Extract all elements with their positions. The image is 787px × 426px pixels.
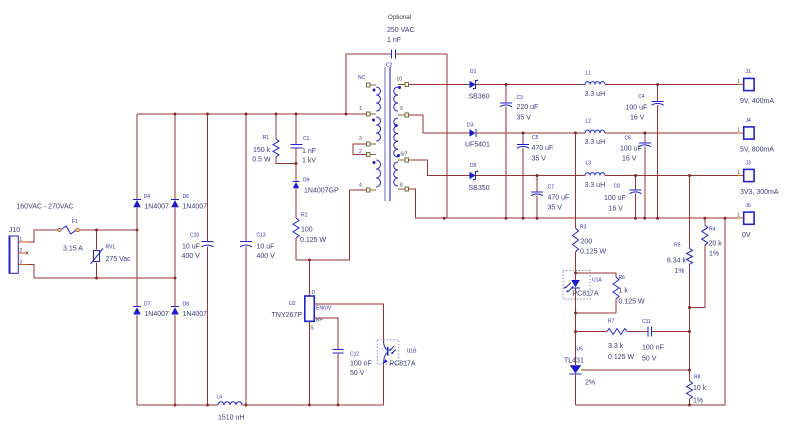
wire: TL431 ref line — [581, 369, 690, 371]
svg-text:R1: R1 — [263, 135, 270, 141]
svg-text:EN/UV: EN/UV — [316, 306, 332, 312]
junction: compensation tap — [574, 330, 577, 333]
junction: 0V rail taps — [443, 217, 727, 220]
diode D3 UF5401 — [465, 123, 490, 149]
svg-text:C11: C11 — [642, 319, 651, 325]
svg-text:6/7: 6/7 — [401, 152, 408, 158]
node: AC input label — [16, 204, 73, 211]
svg-text:20 k: 20 k — [709, 241, 723, 248]
svg-text:0.125 W: 0.125 W — [608, 354, 634, 361]
svg-text:1: 1 — [359, 106, 362, 112]
svg-text:D9: D9 — [303, 178, 310, 184]
svg-text:220 uF: 220 uF — [517, 104, 539, 111]
svg-text:160VAC - 270VAC: 160VAC - 270VAC — [16, 204, 73, 211]
capacitor C3 220uF 35V — [500, 85, 538, 219]
no-connect marker on J10 pin 2 — [25, 252, 28, 255]
junction: L node at left bridge leg — [136, 229, 139, 232]
svg-text:J6: J6 — [746, 203, 752, 209]
svg-text:D5: D5 — [470, 163, 477, 169]
svg-text:R2: R2 — [301, 213, 308, 219]
connector J10 — [9, 227, 27, 273]
wire: optocoupler emitter to primary ground rail — [383, 364, 385, 405]
svg-text:C1: C1 — [303, 136, 310, 142]
svg-text:100: 100 — [301, 227, 313, 234]
diode D8 1N4007 — [171, 301, 207, 318]
transformer secondary winding 9-6/7 — [394, 118, 398, 157]
svg-text:3.3 uH: 3.3 uH — [585, 91, 606, 98]
wire: D9 to R2 — [295, 188, 297, 218]
resistor R3 200 — [573, 133, 607, 273]
svg-text:C2: C2 — [386, 63, 393, 69]
svg-text:100 uF: 100 uF — [620, 146, 642, 153]
svg-text:C13: C13 — [257, 233, 266, 239]
inductor L3 3.3uH — [585, 161, 606, 190]
svg-text:C4: C4 — [638, 94, 645, 100]
junction: 3V3 row taps — [536, 174, 691, 177]
junction: N node at right bridge leg — [174, 277, 177, 280]
svg-text:3V3, 300mA: 3V3, 300mA — [740, 189, 779, 196]
capacitor C12 100nF 50V — [332, 349, 371, 405]
connector J1 9V — [737, 69, 775, 105]
capacitor C1 1nF 1kV — [291, 114, 317, 164]
wire: secondary 0V rail (pin 8 to J6) — [409, 189, 737, 218]
svg-text:0.125 W: 0.125 W — [300, 237, 326, 244]
svg-text:1: 1 — [737, 79, 740, 85]
wire: clamp node to D9 — [295, 164, 297, 182]
fuse F1 — [58, 219, 83, 253]
svg-text:L2: L2 — [586, 119, 592, 125]
wire: C10 leg — [207, 114, 209, 405]
junction: drain node — [308, 259, 311, 262]
capacitor C11 100nF 50V — [627, 319, 690, 363]
svg-text:U1A: U1A — [592, 278, 602, 284]
svg-text:R3: R3 — [580, 225, 587, 231]
resistor R8 10k — [687, 375, 707, 406]
svg-text:L4: L4 — [217, 395, 223, 401]
svg-text:L1: L1 — [586, 71, 592, 77]
svg-text:9V, 400mA: 9V, 400mA — [740, 98, 774, 105]
wire: right bridge leg — [174, 114, 176, 405]
resistor R4 20k — [690, 218, 723, 307]
wire: clamp return / drain node to transformer pin 4 — [296, 190, 366, 260]
svg-text:1 nF: 1 nF — [387, 37, 401, 44]
transformer T1 core — [385, 67, 390, 201]
wire: primary ground rail — [137, 404, 384, 406]
svg-text:1N4007: 1N4007 — [183, 311, 208, 318]
svg-text:1 nF: 1 nF — [302, 148, 316, 155]
svg-text:C8: C8 — [614, 184, 621, 190]
svg-text:1 kV: 1 kV — [302, 157, 316, 164]
svg-text:1: 1 — [737, 213, 740, 219]
svg-text:1N4007: 1N4007 — [144, 204, 169, 211]
svg-text:RV1: RV1 — [106, 245, 116, 251]
svg-text:R6: R6 — [619, 275, 626, 281]
capacitor C8 100uF 16V — [604, 176, 642, 219]
svg-text:10 uF: 10 uF — [182, 244, 200, 251]
wire: 5V row (pin 9 to J4) — [409, 115, 737, 133]
inductor L4 1510uH — [217, 395, 245, 422]
wire: short pins 3-2 — [353, 144, 366, 155]
svg-text:D: D — [312, 290, 316, 296]
svg-text:16 V: 16 V — [630, 115, 645, 122]
wire: 3V3 row (pin 6/7 to J3) — [409, 160, 737, 176]
transformer pin 10 — [397, 77, 409, 87]
junction: bus taps — [174, 113, 348, 116]
transformer primary winding NC-1 — [376, 87, 380, 111]
svg-text:D8: D8 — [183, 301, 190, 307]
svg-text:1: 1 — [737, 170, 740, 176]
transformer primary winding 2-4 — [376, 160, 380, 187]
svg-text:PC817A: PC817A — [390, 361, 416, 368]
svg-text:1N4007: 1N4007 — [144, 311, 169, 318]
wire: C13 leg — [245, 114, 247, 405]
svg-text:Optional: Optional — [388, 14, 411, 21]
svg-text:1N4007GP: 1N4007GP — [304, 188, 339, 195]
svg-text:R4: R4 — [709, 227, 716, 233]
wire: LED cathode down to TL431 cathode — [575, 313, 577, 365]
svg-text:470 uF: 470 uF — [532, 145, 554, 152]
svg-text:3.3 k: 3.3 k — [608, 343, 624, 350]
IC U2 TNY267P — [272, 290, 332, 332]
svg-text:4: 4 — [359, 183, 362, 189]
capacitor C6 100uF 16V — [620, 133, 651, 218]
svg-text:6.34 k: 6.34 k — [667, 258, 687, 265]
connector J6 0V — [737, 203, 754, 239]
svg-text:C5: C5 — [532, 135, 539, 141]
transformer pin 3 — [359, 136, 376, 146]
optocoupler U1B PC817A (transistor side) — [377, 340, 417, 368]
svg-text:D1: D1 — [470, 69, 477, 75]
shunt regulator U5 TL431 — [564, 347, 595, 406]
svg-text:1N4007: 1N4007 — [183, 204, 208, 211]
junction: LED anode — [574, 272, 577, 275]
transformer pin 2 — [359, 149, 376, 156]
svg-text:C7: C7 — [548, 185, 555, 191]
svg-text:35 V: 35 V — [517, 115, 532, 122]
inductor L2 3.3uH — [585, 119, 606, 147]
transformer pin 8 — [398, 183, 409, 191]
svg-text:0.125 W: 0.125 W — [580, 249, 606, 256]
svg-text:3: 3 — [359, 136, 362, 142]
svg-text:400 V: 400 V — [257, 253, 276, 260]
svg-text:D4: D4 — [144, 194, 151, 200]
svg-text:NC: NC — [358, 75, 366, 81]
svg-text:C12: C12 — [350, 352, 359, 358]
svg-text:0.5 W: 0.5 W — [252, 157, 271, 164]
svg-text:R8: R8 — [694, 375, 701, 381]
diode D6 1N4007 — [171, 194, 207, 211]
svg-text:3.3 uH: 3.3 uH — [585, 182, 606, 189]
svg-text:10 uF: 10 uF — [257, 244, 275, 251]
svg-text:C6: C6 — [625, 136, 632, 142]
transformer secondary winding 10-9 — [394, 87, 398, 111]
svg-text:150 k: 150 k — [253, 147, 271, 154]
svg-text:1: 1 — [20, 237, 23, 243]
svg-text:275 Vac: 275 Vac — [106, 256, 132, 263]
wire: left bridge leg — [136, 114, 138, 405]
junction: 5V row taps — [522, 132, 647, 135]
transformer pin 6/7 — [398, 152, 409, 162]
wire: LED cathode node to R6 bottom — [576, 312, 617, 314]
svg-text:100 uF: 100 uF — [626, 105, 648, 112]
resistor R2 100 — [293, 213, 326, 261]
wire: J10 pin1 to fuse — [27, 230, 58, 242]
junction: primary rail taps — [174, 404, 340, 407]
transformer primary winding 1-3 — [376, 117, 380, 141]
capacitor C4 100uF 16V — [626, 85, 664, 219]
svg-text:3.15 A: 3.15 A — [63, 246, 83, 253]
svg-text:10 k: 10 k — [693, 385, 707, 392]
transformer pin 4 — [359, 183, 376, 192]
svg-text:UF5401: UF5401 — [465, 142, 490, 149]
diode D5 SB350 — [469, 163, 490, 192]
svg-text:8: 8 — [400, 183, 403, 189]
svg-text:3: 3 — [20, 260, 23, 266]
svg-text:J3: J3 — [746, 161, 752, 167]
svg-text:1%: 1% — [693, 398, 703, 405]
svg-text:250 VAC: 250 VAC — [387, 27, 415, 34]
svg-text:1: 1 — [737, 128, 740, 134]
capacitor C2 250VAC 1nF (Y-cap, optional) — [346, 14, 447, 218]
svg-text:C3: C3 — [517, 95, 524, 101]
junction: 9V row taps — [505, 83, 660, 86]
svg-text:R7: R7 — [608, 319, 615, 325]
capacitor C13 — [240, 233, 275, 261]
wire: opto LED anode node — [576, 273, 617, 277]
svg-text:PC817A: PC817A — [573, 291, 599, 298]
resistor R6 1k — [613, 275, 645, 313]
svg-text:100 nF: 100 nF — [350, 361, 372, 368]
svg-text:16 V: 16 V — [622, 156, 637, 163]
varistor RV1 — [91, 230, 132, 278]
junction: N line / RV1 bottom — [95, 277, 98, 280]
wire: U2 EN/UV to optocoupler collector — [314, 304, 383, 341]
svg-text:10: 10 — [397, 77, 403, 83]
diode D9 1N4007GP — [293, 178, 339, 195]
svg-text:F1: F1 — [72, 219, 78, 225]
svg-text:R5: R5 — [674, 243, 681, 249]
svg-text:1510 uH: 1510 uH — [218, 415, 244, 422]
svg-text:100 uF: 100 uF — [604, 195, 626, 202]
svg-text:D6: D6 — [183, 194, 190, 200]
transformer polarity dots — [372, 86, 401, 164]
resistor R7 3.3k — [576, 319, 635, 362]
svg-text:2: 2 — [20, 248, 23, 254]
svg-text:J4: J4 — [746, 118, 752, 124]
svg-text:100 nF: 100 nF — [642, 345, 664, 352]
svg-text:C10: C10 — [190, 233, 199, 239]
svg-text:U1B: U1B — [407, 349, 417, 355]
transformer secondary winding 6/7-8 — [394, 162, 398, 186]
svg-text:TNY267P: TNY267P — [272, 312, 303, 319]
svg-text:50 V: 50 V — [350, 370, 365, 377]
junction: LED cathode — [574, 312, 577, 315]
svg-text:1%: 1% — [674, 268, 684, 275]
capacitor C7 470uF 35V — [531, 176, 569, 219]
capacitor C5 470uF 35V — [517, 133, 553, 218]
svg-text:5V, 800mA: 5V, 800mA — [740, 147, 774, 154]
wire: rectified + top bus — [137, 113, 366, 115]
connector J3 3V3 — [737, 161, 779, 197]
wire: J10 pin3 to bridge right leg (N node) — [27, 265, 175, 279]
svg-text:1 k: 1 k — [619, 288, 629, 295]
svg-text:9: 9 — [400, 106, 403, 112]
capacitor C10 — [182, 233, 214, 261]
svg-text:U5: U5 — [577, 347, 584, 353]
svg-text:35 V: 35 V — [548, 205, 563, 212]
svg-text:470 uF: 470 uF — [548, 195, 570, 202]
junction: fuse line / RV1 top — [95, 229, 98, 232]
transformer pin 1 — [359, 106, 376, 116]
svg-text:2%: 2% — [585, 380, 595, 387]
junction: ref node taps — [688, 306, 691, 406]
connector J4 5V — [737, 118, 775, 154]
svg-text:0V: 0V — [742, 232, 751, 239]
svg-text:400 V: 400 V — [182, 253, 201, 260]
svg-text:TL431: TL431 — [564, 358, 584, 365]
wire: fuse to bridge left leg (L node) — [79, 229, 137, 231]
svg-text:L3: L3 — [586, 161, 592, 167]
resistor R1 150k — [252, 114, 296, 164]
wire: secondary feedback ground rail — [576, 218, 726, 405]
svg-text:1%: 1% — [709, 251, 719, 258]
junction: clamp RC node — [295, 162, 298, 165]
diode D1 SB360 — [469, 69, 490, 101]
wire: 9V row (pin 10 to J1) — [409, 84, 737, 86]
svg-text:D3: D3 — [467, 123, 474, 129]
transformer pin NC — [358, 75, 376, 87]
diode D7 1N4007 — [133, 301, 169, 318]
wire: drain down to U2 D pin — [309, 260, 311, 296]
diode D4 1N4007 — [133, 194, 169, 211]
svg-text:50 V: 50 V — [642, 356, 657, 363]
svg-text:J1: J1 — [746, 69, 752, 75]
wire: U2 BP pin to C12 — [314, 318, 338, 349]
svg-text:16 V: 16 V — [609, 206, 624, 213]
svg-text:0.125 W: 0.125 W — [619, 299, 645, 306]
svg-text:SB360: SB360 — [469, 94, 490, 101]
optocoupler U1A PC817A (LED side) — [563, 271, 602, 314]
svg-text:J10: J10 — [9, 227, 20, 234]
wire: U2 source to primary ground rail — [309, 321, 311, 405]
svg-text:200: 200 — [581, 239, 593, 246]
svg-text:3.3 uH: 3.3 uH — [585, 139, 606, 146]
svg-text:35 V: 35 V — [532, 156, 547, 163]
transformer pin 9 — [398, 106, 409, 117]
svg-text:U2: U2 — [289, 301, 296, 307]
svg-text:SB350: SB350 — [469, 185, 490, 192]
resistor R5 6.34k — [667, 176, 693, 382]
svg-text:D7: D7 — [144, 301, 151, 307]
inductor L1 3.3uH — [585, 71, 606, 99]
